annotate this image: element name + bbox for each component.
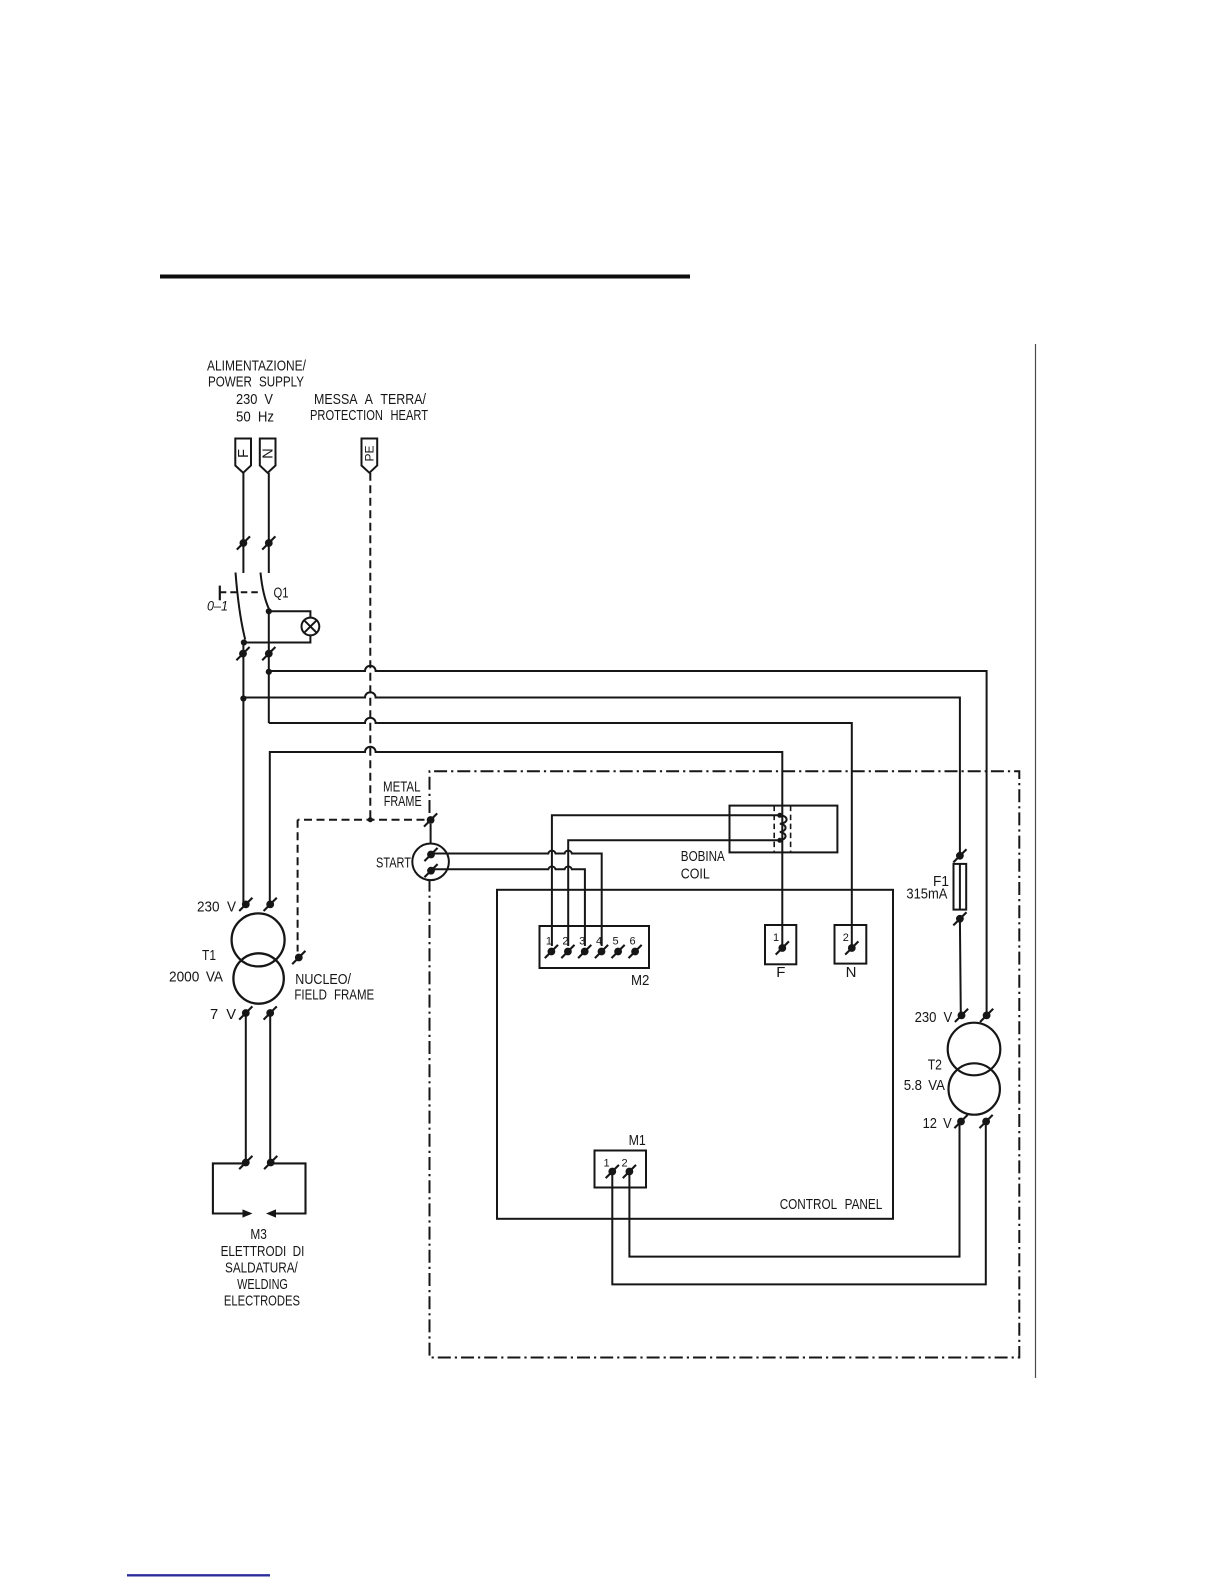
wire frame clamp to start xyxy=(430,824,432,844)
svg-text:PE: PE xyxy=(363,445,377,461)
svg-text:PROTECTION HEART: PROTECTION HEART xyxy=(310,407,428,424)
wire lamp return xyxy=(244,635,311,642)
wire bus3 N to terminal N xyxy=(269,718,852,948)
coil winding xyxy=(777,813,786,843)
svg-text:ELETTRODI DI: ELETTRODI DI xyxy=(221,1243,305,1260)
svg-text:315mA: 315mA xyxy=(906,886,947,903)
svg-text:ELECTRODES: ELECTRODES xyxy=(224,1293,300,1310)
clamp M3 left xyxy=(239,1156,252,1169)
wire F drop from terminal xyxy=(242,473,244,573)
wire coil top to M2.1 xyxy=(552,815,780,946)
svg-text:M2: M2 xyxy=(631,972,649,989)
terminal block M1 xyxy=(595,1151,647,1188)
svg-text:7 V: 7 V xyxy=(210,1006,236,1023)
node lamp feed on N xyxy=(266,608,272,614)
clamp T1 230V right xyxy=(264,898,277,911)
wire F1 to T2 xyxy=(959,919,962,1016)
wire lamp feed xyxy=(269,611,311,617)
svg-text:2: 2 xyxy=(621,1158,627,1170)
svg-text:12 V: 12 V xyxy=(923,1115,952,1132)
terminal N of panel xyxy=(835,925,867,981)
pin 1 M2 xyxy=(545,936,558,959)
terminal F of panel xyxy=(765,925,796,981)
svg-text:5: 5 xyxy=(613,936,619,948)
wire N drop from terminal xyxy=(268,473,270,573)
svg-text:230 V: 230 V xyxy=(915,1009,953,1026)
coil box xyxy=(730,806,838,853)
header rule xyxy=(160,275,690,279)
wire start bottom to M2.3 xyxy=(434,866,585,946)
wire F to T1 xyxy=(242,699,244,905)
svg-text:230 V: 230 V xyxy=(197,899,236,916)
svg-text:Q1: Q1 xyxy=(274,585,289,602)
wire PE dashed drop xyxy=(369,473,371,820)
svg-text:2: 2 xyxy=(562,936,568,948)
svg-text:3: 3 xyxy=(579,936,585,948)
svg-text:T1: T1 xyxy=(202,947,216,964)
wire M1.2 to T2 12V left xyxy=(629,1122,959,1257)
node bus2 on F xyxy=(240,695,246,701)
wire T1 7V left to M3 xyxy=(245,1013,247,1163)
enclosure dash-dot border xyxy=(430,771,1020,1357)
clamp F lower xyxy=(236,647,249,660)
svg-text:ALIMENTAZIONE/: ALIMENTAZIONE/ xyxy=(207,358,307,375)
pin 5 M2 xyxy=(612,936,625,959)
svg-text:1: 1 xyxy=(546,936,552,948)
terminal F xyxy=(235,439,252,473)
label 230 V 50 Hz xyxy=(236,391,274,426)
wire bus4 T1 to terminal F xyxy=(270,747,783,948)
switch START xyxy=(412,844,449,881)
svg-text:2000 VA: 2000 VA xyxy=(169,969,223,986)
clamp F upper xyxy=(237,536,250,549)
lamp indicator xyxy=(302,618,320,636)
wire F mid xyxy=(242,643,244,699)
pin 4 M2 xyxy=(595,936,608,959)
svg-text:2: 2 xyxy=(843,932,849,944)
wire frame to nucleo dashed xyxy=(297,820,299,952)
svg-text:M1: M1 xyxy=(629,1132,646,1149)
clamp T1 7V right xyxy=(264,1006,277,1019)
fuse F1 xyxy=(953,849,966,925)
electrodes M3 xyxy=(213,1163,306,1217)
svg-text:NUCLEO/: NUCLEO/ xyxy=(295,971,351,988)
footer blue rule xyxy=(127,1574,270,1576)
wire start top to M2.4 xyxy=(434,851,602,946)
node bus1 on N xyxy=(266,669,272,675)
svg-text:1: 1 xyxy=(773,932,779,944)
label ALIMENTAZIONE / POWER SUPPLY xyxy=(207,358,307,391)
svg-text:T2: T2 xyxy=(928,1057,942,1074)
svg-text:N: N xyxy=(261,448,277,458)
pin 3 M2 xyxy=(578,936,591,959)
clamp T2 12V left xyxy=(954,1115,967,1128)
svg-text:230 V: 230 V xyxy=(236,391,273,408)
wire T1 7V right to M3 xyxy=(269,1013,271,1163)
svg-text:1: 1 xyxy=(603,1158,609,1170)
svg-text:4: 4 xyxy=(596,936,602,948)
svg-text:FRAME: FRAME xyxy=(384,793,422,810)
svg-text:N: N xyxy=(846,964,857,981)
clamp T1 nucleo xyxy=(292,951,305,964)
label F1 315mA xyxy=(906,873,949,903)
wire frame bus dashed xyxy=(298,819,425,821)
label BOBINA COIL xyxy=(681,848,725,883)
label METAL FRAME xyxy=(383,779,422,811)
page frame right border xyxy=(1035,344,1037,1378)
clamp T2 12V right xyxy=(980,1115,993,1128)
svg-text:CONTROL PANEL: CONTROL PANEL xyxy=(780,1196,883,1213)
svg-text:POWER SUPPLY: POWER SUPPLY xyxy=(208,374,304,391)
switch Q1 xyxy=(220,573,269,640)
pin 2 M2 xyxy=(561,936,574,959)
terminal block M2 xyxy=(540,926,650,968)
svg-text:WELDING: WELDING xyxy=(237,1276,288,1293)
wire M1.1 to T2 12V right xyxy=(612,1122,986,1285)
clamp T1 7V left xyxy=(239,1006,252,1019)
svg-text:M3: M3 xyxy=(250,1226,267,1243)
transformer T2 xyxy=(948,1023,1001,1115)
svg-text:F: F xyxy=(236,449,252,458)
wire bus2 F to fuse F1 xyxy=(243,692,960,856)
label MESSA A TERRA / PROTECTION HEART xyxy=(310,391,428,424)
pin 6 M2 xyxy=(629,936,642,959)
transformer T1 xyxy=(232,913,285,1003)
wire bus1 N to T2 right xyxy=(269,666,987,1016)
label M3 ELETTRODI DI SALDATURA / WELDING ELECTRODES xyxy=(221,1226,305,1310)
clamp T2 230V left xyxy=(955,1009,968,1022)
svg-text:50 Hz: 50 Hz xyxy=(236,409,274,426)
node lamp return on F xyxy=(241,639,247,645)
svg-text:FIELD FRAME: FIELD FRAME xyxy=(294,987,374,1004)
svg-text:0–1: 0–1 xyxy=(207,599,228,614)
clamp M3 right xyxy=(264,1156,277,1169)
svg-text:6: 6 xyxy=(630,936,636,948)
svg-text:COIL: COIL xyxy=(681,866,710,883)
control panel box xyxy=(497,890,893,1219)
clamp T1 230V left xyxy=(239,898,252,911)
svg-text:START: START xyxy=(376,855,411,872)
svg-text:MESSA A TERRA/: MESSA A TERRA/ xyxy=(314,391,427,408)
svg-text:SALDATURA/: SALDATURA/ xyxy=(225,1260,298,1277)
clamp N upper xyxy=(262,536,275,549)
wire N mid xyxy=(268,611,270,723)
clamp T2 230V right xyxy=(980,1009,993,1022)
wire coil bottom to M2.2 xyxy=(568,840,780,946)
terminal PE xyxy=(362,439,378,473)
clamp N lower xyxy=(262,647,275,660)
svg-text:F: F xyxy=(776,964,785,981)
terminal N xyxy=(260,439,277,473)
svg-text:BOBINA: BOBINA xyxy=(681,848,725,865)
node PE to frame bus xyxy=(368,817,373,822)
label NUCLEO / FIELD FRAME xyxy=(294,971,374,1004)
svg-text:5.8 VA: 5.8 VA xyxy=(904,1077,945,1094)
clamp metal frame xyxy=(424,813,437,826)
